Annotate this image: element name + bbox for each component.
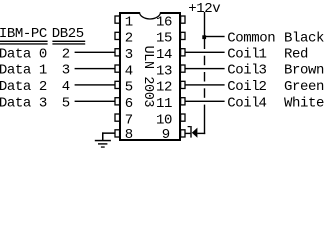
svg-text:Red: Red [284,46,308,62]
svg-text:16: 16 [156,14,172,30]
svg-text:IBM-PC: IBM-PC [0,26,47,42]
svg-text:Brown: Brown [284,63,324,79]
svg-text:6: 6 [125,96,133,112]
svg-text:Data 1: Data 1 [0,63,47,79]
pin box 10 [181,114,185,121]
svg-text:Coil: Coil [227,95,259,111]
wire +12v rail segment 1 [204,12,205,49]
pin box 3 [115,49,120,56]
ground bar 2 [98,143,107,144]
svg-text:2: 2 [62,46,70,62]
op-amp U1 ULN2003 body [120,13,180,140]
svg-text:Data 3: Data 3 [0,95,47,111]
svg-text:Data 0: Data 0 [0,46,47,62]
diode D1 triangle [192,128,198,138]
pin box 1 [115,16,120,23]
node IBM-PC header double underline [0,41,48,42]
op-amp U1 notch [140,12,161,19]
svg-text:Common: Common [227,31,275,47]
wire Data 0 to pin 3 [75,52,116,53]
wire pin 9 to diode D1 [185,133,191,134]
svg-text:8: 8 [125,127,133,143]
pin box 9 [181,130,185,137]
pin box 2 [115,32,120,39]
svg-text:15: 15 [156,31,172,47]
pin box 8 [115,130,120,137]
svg-text:4: 4 [259,95,267,111]
ground bar 3 [101,146,105,147]
svg-text:5: 5 [62,95,70,111]
wire +12v rail segment 2 [204,56,205,65]
pin box 12 [181,81,185,88]
svg-text:13: 13 [156,63,172,79]
node DB25 header double underline [52,41,85,42]
svg-text:2: 2 [259,79,267,95]
pin box 16 [181,16,185,23]
svg-text:14: 14 [156,47,172,63]
wire +12v rail segment 3 [204,72,205,82]
junction dot rail to Common [202,35,206,39]
wire Data 3 to pin 6 [75,101,116,102]
pin box 13 [181,65,185,72]
svg-text:2: 2 [125,31,133,47]
wire pin 12 to Coil 2 [185,84,225,85]
pin box 6 [115,98,120,105]
wire Data 2 to pin 5 [75,84,116,85]
ground stem [102,132,104,140]
svg-text:3: 3 [62,63,70,79]
wire +12v rail segment 4 [204,88,205,98]
svg-text:Coil: Coil [227,79,259,95]
pin box 15 [181,32,185,39]
svg-text:3: 3 [125,47,133,63]
svg-text:5: 5 [125,80,133,96]
svg-text:Data 2: Data 2 [0,79,47,95]
pin box 14 [181,49,185,56]
pin box 7 [115,114,120,121]
svg-text:Coil: Coil [227,46,259,62]
svg-text:3: 3 [259,63,267,79]
diode D1 cathode top serif [188,126,191,127]
svg-text:1: 1 [259,46,267,62]
svg-text:4: 4 [62,79,70,95]
svg-text:1: 1 [125,14,133,30]
svg-text:DB25: DB25 [52,26,84,42]
diode D1 cathode bar [190,126,191,138]
pin box 11 [181,98,185,105]
wire diode D1 to +12v rail [197,133,205,134]
pin box 4 [115,65,120,72]
svg-text:ULN 2003: ULN 2003 [140,46,155,108]
wire rail to Common [205,36,225,37]
svg-text:Black: Black [284,31,324,47]
wire pin 14 to Coil 1 [185,52,225,53]
svg-text:Coil: Coil [227,63,259,79]
wire pin 11 to Coil 4 [185,101,225,102]
wire pin 8 to ground [102,132,115,134]
svg-text:White: White [284,95,324,111]
wire pin 13 to Coil 3 [185,68,225,69]
wire +12v rail segment 5 [204,105,205,135]
wire Data 1 to pin 4 [75,68,116,69]
ground bar 1 [95,140,111,142]
pin box 5 [115,81,120,88]
svg-text:Green: Green [284,79,324,95]
svg-text:12: 12 [156,80,172,96]
svg-text:9: 9 [162,127,170,143]
svg-text:4: 4 [125,63,133,79]
svg-text:11: 11 [156,96,172,112]
